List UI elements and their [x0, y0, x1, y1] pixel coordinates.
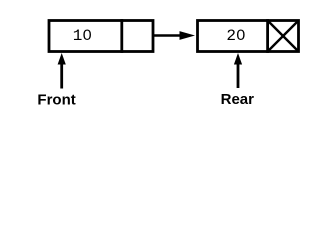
svg-text:10: 10	[73, 27, 92, 45]
svg-text:Rear: Rear	[221, 91, 255, 108]
node N2 null pointer X	[268, 21, 299, 52]
node N1 box	[49, 21, 153, 52]
node N2 box	[198, 21, 299, 52]
node N1 divider	[120, 19, 123, 53]
svg-text:20: 20	[226, 27, 245, 45]
wire arrow N1 to N2	[154, 31, 195, 40]
Front pointer arrow	[58, 53, 66, 89]
node N1 data value 10	[73, 27, 92, 45]
svg-text:Front: Front	[37, 91, 75, 108]
node N2 divider	[266, 19, 269, 53]
node N2 data value 20	[226, 27, 245, 45]
Rear pointer arrow	[234, 53, 242, 88]
